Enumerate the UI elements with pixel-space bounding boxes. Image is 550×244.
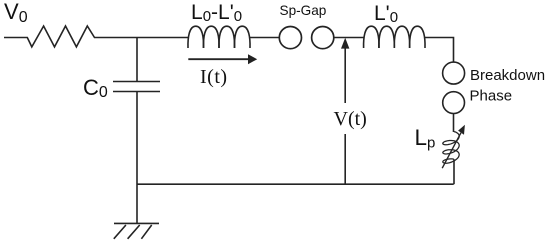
svg-text:L'0: L'0 [374, 2, 398, 26]
svg-text:Sp-Gap: Sp-Gap [280, 3, 327, 18]
svg-text:Breakdown: Breakdown [470, 67, 545, 84]
svg-text:Phase: Phase [470, 88, 513, 105]
svg-text:L0-L'0: L0-L'0 [191, 1, 242, 25]
svg-text:V(t): V(t) [334, 108, 367, 130]
svg-text:Lp: Lp [415, 125, 436, 152]
svg-text:I(t): I(t) [200, 66, 228, 88]
svg-text:C0: C0 [83, 75, 108, 101]
svg-text:V0: V0 [4, 0, 28, 26]
